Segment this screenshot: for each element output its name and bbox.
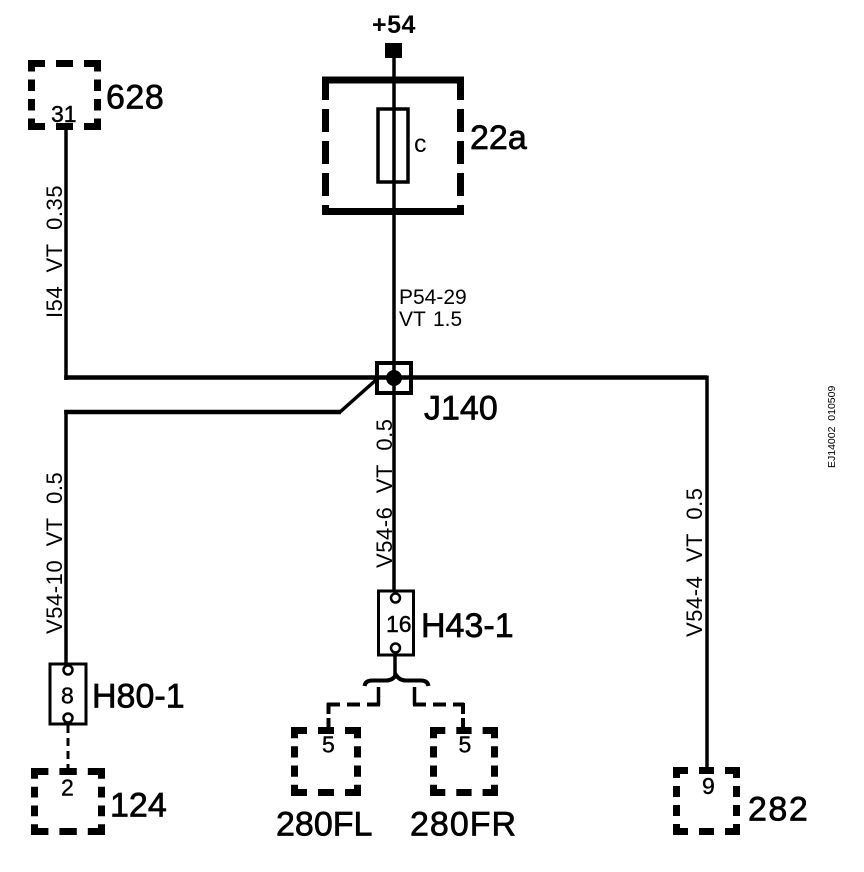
svg-text:8: 8 (61, 683, 74, 709)
svg-text:280FR: 280FR (410, 806, 517, 844)
svg-text:V54-4 VT 0.5: V54-4 VT 0.5 (682, 487, 707, 637)
svg-text:5: 5 (459, 732, 472, 758)
svg-text:9: 9 (702, 773, 715, 799)
svg-text:124: 124 (110, 787, 167, 825)
svg-text:1.5: 1.5 (433, 308, 462, 331)
svg-text:280FL: 280FL (276, 806, 372, 844)
svg-text:31: 31 (51, 101, 77, 127)
svg-text:VT: VT (399, 308, 426, 331)
svg-text:H43-1: H43-1 (421, 607, 514, 645)
svg-text:628: 628 (106, 79, 164, 117)
svg-text:P54-29: P54-29 (399, 286, 467, 309)
svg-text:2: 2 (61, 775, 74, 801)
svg-text:EJ14002 010509: EJ14002 010509 (826, 386, 838, 468)
svg-text:5: 5 (322, 732, 335, 758)
svg-text:16: 16 (386, 611, 412, 637)
svg-text:I54 VT 0.35: I54 VT 0.35 (42, 185, 67, 318)
svg-text:22a: 22a (470, 119, 527, 157)
svg-text:+54: +54 (372, 11, 416, 39)
svg-text:V54-10 VT 0.5: V54-10 VT 0.5 (42, 472, 67, 634)
svg-text:282: 282 (748, 791, 809, 829)
svg-text:J140: J140 (424, 390, 498, 428)
svg-text:H80-1: H80-1 (92, 678, 185, 716)
svg-text:c: c (414, 130, 427, 158)
svg-text:V54-6 VT 0.5: V54-6 VT 0.5 (372, 418, 397, 568)
